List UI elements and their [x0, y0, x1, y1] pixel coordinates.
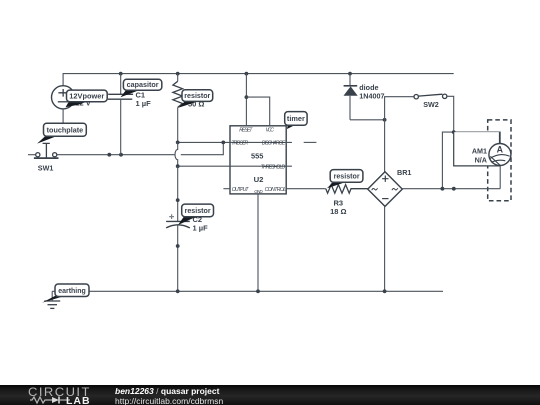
- probe dashed box around AM1: [488, 120, 511, 201]
- wire bottom ground rail: [52, 290, 443, 292]
- svg-text:A: A: [497, 144, 504, 154]
- svg-text:18 Ω: 18 Ω: [330, 207, 346, 216]
- node junction dot touchplate tap: [107, 153, 111, 157]
- chip 555 timer U2 body: [230, 126, 286, 194]
- svg-text:earthing: earthing: [58, 286, 86, 295]
- ammeter AM1 label box: [454, 132, 500, 166]
- wire AM1 bottom stub: [499, 166, 501, 189]
- wire BR1 top riser: [384, 120, 386, 172]
- node junction dot below C2: [176, 244, 180, 248]
- ground symbol: [44, 291, 60, 308]
- wire SW2 feed riser: [385, 97, 414, 120]
- wire SW2 output down to AM1 top: [447, 96, 454, 132]
- wire top rail from V1 to top right: [63, 74, 454, 86]
- wire C2 line hop over SW1 row: [175, 153, 181, 156]
- callout timer: [285, 112, 307, 129]
- callout resistor (at C2): [178, 204, 214, 225]
- svg-text:SW1: SW1: [38, 163, 54, 172]
- wire CONTROL pin to R3: [286, 188, 326, 190]
- switch SW2: [414, 94, 447, 99]
- wire V1 bottom stub: [62, 109, 64, 124]
- svg-text:DISCHARGE: DISCHARGE: [262, 141, 286, 147]
- svg-text:capasitor: capasitor: [127, 80, 159, 89]
- svg-text:AM1: AM1: [472, 146, 487, 155]
- callout resistor (R3): [327, 170, 363, 189]
- wire R2 bottom to trigger row: [177, 107, 179, 142]
- capacitor C2 polarized: [166, 166, 190, 291]
- svg-text:resistor: resistor: [184, 91, 210, 100]
- svg-text:timer: timer: [287, 114, 305, 123]
- callout earthing: [42, 284, 89, 303]
- node junction dot diode/BR1/SW2: [383, 118, 387, 122]
- node junction dot C1 line meets SW1 row: [119, 153, 123, 157]
- svg-text:OUTPUT: OUTPUT: [232, 187, 250, 193]
- bridge rectifier BR1: [368, 172, 403, 207]
- svg-text:1 µF: 1 µF: [193, 224, 209, 233]
- svg-text:CONTROL: CONTROL: [265, 187, 287, 193]
- node junction dot BR1 at ground rail: [383, 289, 387, 293]
- callout resistor (R2): [178, 90, 212, 108]
- node junction dot SW1 riser at trigger row: [221, 141, 225, 145]
- svg-text:resistor: resistor: [185, 206, 211, 215]
- svg-text:VCC: VCC: [266, 127, 275, 133]
- node junction dot top rail / R2 branch: [176, 72, 180, 76]
- callout capasitor: [121, 79, 162, 97]
- callout touchplate: [37, 123, 86, 143]
- svg-text:TRIGGER: TRIGGER: [231, 141, 248, 147]
- node junction dot R2/C2 line at trigger row: [176, 141, 180, 145]
- svg-text:1N4007: 1N4007: [359, 91, 384, 100]
- callout 12Vpower: [66, 90, 108, 107]
- wire SW1 left stub: [28, 154, 36, 156]
- svg-text:1 µF: 1 µF: [136, 99, 152, 108]
- node junction dot top rail / C1 branch: [119, 72, 123, 76]
- svg-text:THRESHOLD: THRESHOLD: [261, 164, 286, 170]
- wire TRIGGER row: [178, 141, 292, 143]
- node junction dot AM1 row mid: [452, 187, 456, 191]
- node junction dot top rail / diode branch: [348, 72, 352, 76]
- node junction dot above C2: [176, 198, 180, 202]
- wire GND pin drop: [257, 194, 259, 291]
- pushbutton switch SW1: [34, 143, 59, 158]
- diode D1 1N4007: [344, 74, 358, 120]
- node junction dot C2 at ground rail: [176, 289, 180, 293]
- wire AM1 left loop riser: [442, 132, 500, 189]
- svg-text:RESET: RESET: [239, 127, 253, 133]
- node junction dot SW2 drop at AM1 top: [452, 130, 456, 134]
- node junction dot VCC tap on reset riser: [245, 95, 249, 99]
- wire BR1 bottom to ground rail: [384, 206, 386, 291]
- node junction dot at threshold row: [176, 164, 180, 168]
- wire stray dash right of DISCHARGE: [304, 141, 317, 143]
- node junction dot top rail / RESET branch: [245, 72, 249, 76]
- wire SW1 row to trigger riser: [57, 142, 223, 154]
- wire THRESHOLD row: [178, 165, 292, 167]
- svg-text:12Vpower: 12Vpower: [69, 92, 104, 101]
- svg-text:BR1: BR1: [397, 168, 411, 177]
- svg-text:N/A: N/A: [475, 155, 487, 164]
- node junction dot GND pin at ground rail: [256, 289, 260, 293]
- ammeter AM1 meter dial: [489, 144, 511, 166]
- wire OUTPUT pin stub: [223, 188, 230, 190]
- svg-text:touchplate: touchplate: [47, 126, 84, 135]
- voltage source V1 12V: [52, 86, 75, 109]
- node junction dot AM1 row left: [441, 187, 445, 191]
- svg-text:U2: U2: [254, 175, 264, 184]
- resistor R2 vertical: [173, 74, 183, 108]
- wire RESET pin riser: [245, 74, 247, 126]
- svg-text:GND: GND: [254, 189, 263, 194]
- capacitor C1: [108, 74, 133, 155]
- wire AM1 output row from BR1: [402, 188, 500, 190]
- resistor R3 horizontal: [326, 185, 368, 194]
- pin labels of U2: [231, 127, 286, 194]
- wire VCC pin L-branch: [246, 97, 269, 126]
- svg-text:resistor: resistor: [334, 172, 360, 181]
- svg-text:SW2: SW2: [423, 100, 439, 109]
- svg-text:555: 555: [251, 152, 263, 161]
- wire diode bottom to BR1 riser: [350, 119, 385, 121]
